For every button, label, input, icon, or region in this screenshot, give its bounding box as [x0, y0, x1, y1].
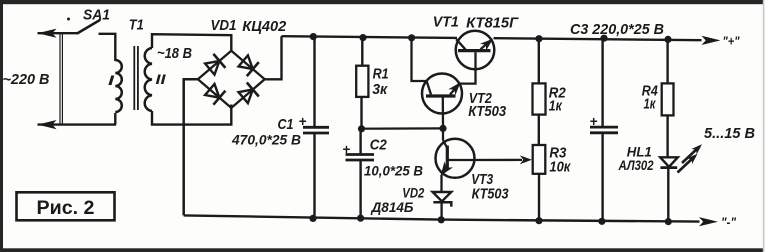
VT3 emitter lead [441, 161, 453, 191]
svg-text:С3 220,0*25 В: С3 220,0*25 В [570, 22, 664, 38]
wire R1 node to VT2 base [362, 127, 444, 130]
wire bridge minus to bottom rail [184, 79, 198, 215]
switch SA1 blade [78, 20, 100, 33]
output + arrow [702, 36, 721, 45]
bridge diamond wires [198, 51, 265, 108]
label "-" [721, 216, 737, 230]
wire R1 top [361, 38, 363, 66]
svg-text:C2: C2 [370, 138, 387, 154]
svg-text:SA1: SA1 [83, 7, 110, 23]
wire R4 top [666, 39, 668, 83]
label Рис. 2 [37, 197, 95, 219]
svg-text:VD2: VD2 [402, 186, 424, 202]
svg-text:10к: 10к [549, 160, 571, 176]
transformer primary winding I [115, 60, 122, 112]
junction dot VT2 collector top [408, 34, 415, 41]
wire switch to transformer [99, 34, 116, 61]
svg-text:3к: 3к [372, 82, 388, 98]
label С3 220,0*25 В (C3) [570, 22, 664, 38]
label VT2 [469, 91, 492, 107]
VT3 base lead [448, 159, 472, 161]
svg-text:II: II [156, 72, 167, 88]
figure label box [17, 192, 115, 220]
wire secondary bottom to bridge [152, 105, 231, 125]
VT3 collector lead [443, 128, 447, 147]
label R4 [642, 84, 658, 100]
wire primary bottom [114, 113, 116, 125]
capacitor C1 [303, 127, 329, 133]
svg-text:+: + [590, 114, 598, 129]
wire bottom rail [184, 215, 700, 221]
label Д814Б (VD2) [371, 200, 414, 216]
svg-text:5...15 В: 5...15 В [704, 126, 755, 142]
junction dot C3 top [600, 35, 607, 42]
resistor R2 [533, 83, 546, 114]
label + (C2) [343, 142, 351, 157]
transistor VT2 base bar [426, 94, 456, 97]
diode VD1.1 (top-left edge) [205, 54, 225, 75]
junction dot C3 bottom [598, 218, 605, 225]
label + (C1) [299, 114, 307, 129]
transformer core [134, 46, 138, 110]
svg-text:1к: 1к [644, 97, 657, 113]
label 3к (R1) [372, 82, 388, 98]
label VD2 [402, 186, 424, 202]
wire C3 bottom [601, 133, 603, 222]
junction dot VD2 bottom [438, 216, 445, 223]
border frame right line [763, 0, 765, 252]
label 5...15 В [704, 126, 755, 142]
label КТ503 (VT2) [468, 104, 506, 120]
mains input vertical link line [60, 33, 62, 124]
label T1 [129, 17, 144, 33]
wire C3 top [601, 38, 603, 127]
VT2 base lead [442, 96, 445, 128]
transistor VT2 circle [422, 74, 462, 114]
transistor VT1 circle [456, 31, 495, 70]
svg-text:"+": "+" [723, 34, 741, 48]
wire C2 bottom [359, 160, 361, 218]
diode VD1.3 (bottom-left edge) [205, 84, 225, 105]
mains input top terminal arrow [38, 29, 78, 38]
label 470,0*25 В (C1) [231, 132, 301, 148]
svg-text:+: + [299, 114, 307, 129]
border frame left bar [0, 0, 3, 252]
junction dot C2 bottom [357, 215, 364, 222]
svg-text:1к: 1к [549, 99, 563, 115]
junction dot HL1 bottom [665, 218, 672, 225]
label R1 [373, 66, 389, 82]
capacitor C2 [346, 155, 375, 161]
wire top rail (left of VT1) [282, 36, 458, 38]
wire VD2 to bottom rail [440, 202, 442, 219]
label ~220 В [3, 71, 50, 88]
label C2 [370, 138, 387, 154]
border frame bottom bar [0, 248, 763, 252]
junction dot C1 bottom [309, 215, 316, 222]
svg-text:10,0*25 В: 10,0*25 В [364, 164, 423, 180]
svg-text:VT1: VT1 [433, 14, 459, 30]
svg-text:Рис. 2: Рис. 2 [37, 197, 95, 219]
label 1к (R2) [549, 99, 563, 115]
label + (C3) [590, 114, 598, 129]
transistor VT1 base bar [458, 49, 491, 52]
label R2 [549, 85, 566, 101]
label КТ815Г (VT1) [466, 16, 519, 32]
junction dot R1-C2 node [358, 125, 365, 132]
LED HL1 diode [660, 157, 678, 167]
transistor VT3 base bar [446, 146, 449, 169]
resistor R1 [356, 66, 368, 97]
wire R2 top [538, 39, 540, 84]
wire HL1 to bottom rail [667, 168, 669, 222]
svg-text:АЛ302: АЛ302 [618, 158, 654, 173]
svg-text:Д814Б: Д814Б [371, 200, 414, 216]
wire R4 to HL1 [666, 115, 668, 157]
svg-text:T1: T1 [129, 17, 144, 33]
svg-text:C1: C1 [278, 117, 294, 133]
output - arrow [699, 217, 718, 226]
wire VT3 base to R3 wiper [471, 155, 532, 164]
label 1к (R4) [644, 97, 657, 113]
junction dot R2 top [535, 35, 542, 42]
svg-text:I: I [108, 73, 116, 89]
LED HL1 emission arrows [678, 144, 703, 172]
svg-text:~220 В: ~220 В [3, 71, 50, 88]
VT1 collector lead [456, 39, 465, 49]
svg-text:КТ815Г: КТ815Г [466, 16, 519, 32]
svg-text:~18 В: ~18 В [157, 46, 192, 62]
label II (secondary) [156, 72, 167, 88]
label 10к (R3) [549, 160, 571, 176]
resistor R3 (variable) [533, 145, 546, 174]
junction dot C1 top [310, 33, 317, 40]
border frame top bar [0, 0, 763, 4]
VT1 base lead [460, 52, 476, 83]
diode VD1.4 (bottom-right edge) [239, 83, 259, 104]
junction dot R3 bottom [535, 217, 542, 224]
svg-text:"-": "-" [721, 216, 737, 230]
wire bridge plus to top rail [265, 36, 282, 79]
wire R2-R3 [538, 115, 540, 145]
svg-text:КТ503: КТ503 [472, 186, 509, 202]
label 10,0*25 В (C2) [364, 164, 423, 180]
wire R3 bottom [538, 174, 540, 221]
svg-text:R1: R1 [373, 66, 389, 82]
label VT3 [471, 172, 493, 188]
svg-text:VD1: VD1 [211, 18, 237, 34]
transistor VT3 circle [436, 139, 475, 178]
label КТ503 (VT3) [472, 186, 509, 202]
label VT1 [433, 14, 459, 30]
label ~18 В [157, 46, 192, 62]
diode VD1.2 (top-right edge) [239, 55, 259, 76]
junction dot VT2 base node [439, 125, 446, 132]
label R3 [549, 146, 566, 162]
label HL1 [627, 144, 652, 159]
svg-text:КЦ402: КЦ402 [242, 19, 287, 35]
svg-text:+: + [343, 142, 351, 157]
wire C1 top [313, 37, 315, 128]
label АЛ302 (HL1) [618, 158, 654, 173]
svg-text:470,0*25 В: 470,0*25 В [231, 132, 301, 148]
label I (primary) [108, 73, 116, 89]
wire top rail (right of VT1) [494, 38, 702, 40]
VT2 collector lead [412, 38, 432, 95]
svg-text:КТ503: КТ503 [468, 104, 506, 120]
junction dot R4 top [664, 36, 671, 43]
label C1 [278, 117, 294, 133]
VT2 emitter lead [448, 82, 460, 95]
wire C2 top [359, 129, 361, 155]
junction dot R1 top [359, 34, 366, 41]
capacitor C3 [590, 127, 618, 133]
label VD1 КЦ402 [211, 18, 288, 35]
label "+" [723, 34, 741, 48]
ink speck near SA1 [67, 18, 70, 21]
mains input bottom terminal arrow [38, 120, 117, 129]
wire C1 bottom [313, 133, 315, 218]
wire R1 bottom [360, 97, 362, 129]
label SA1 [83, 7, 110, 23]
VT1 emitter lead [480, 39, 493, 51]
transformer secondary winding II [145, 48, 152, 111]
resistor R4 [662, 83, 674, 115]
wire secondary top to bridge [152, 34, 231, 51]
zener diode VD2 [433, 192, 452, 207]
